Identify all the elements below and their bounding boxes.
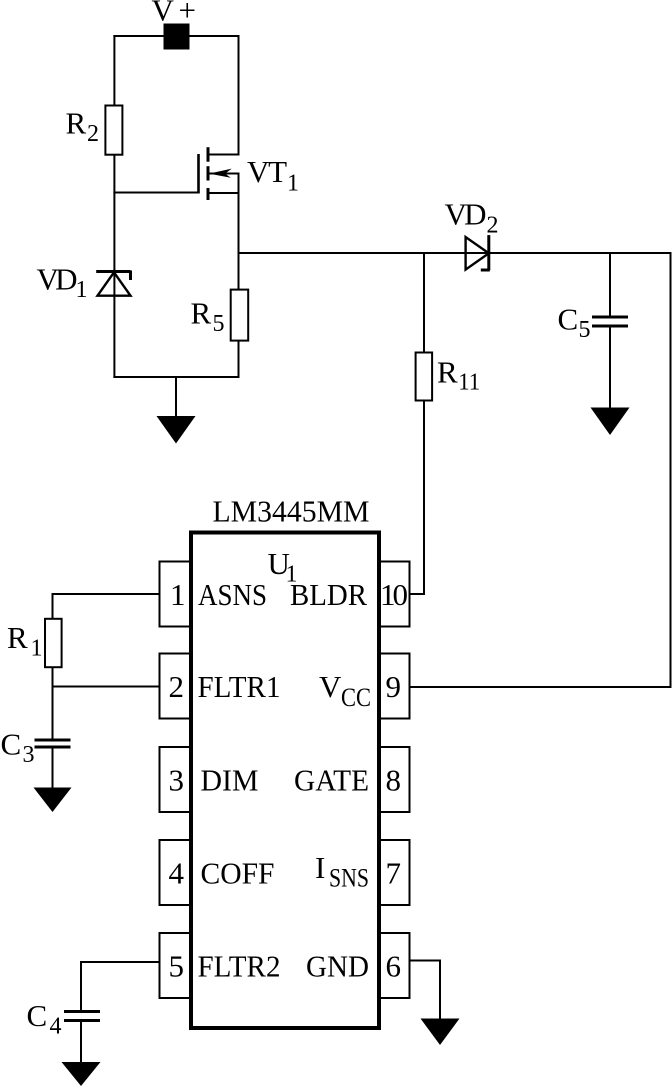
svg-text:SNS: SNS — [329, 864, 369, 893]
svg-text:GATE: GATE — [294, 763, 369, 798]
svg-text:8: 8 — [386, 763, 402, 798]
svg-text:6: 6 — [386, 949, 402, 984]
svg-text:5: 5 — [169, 949, 185, 984]
wire below R5 to bottom rail — [238, 341, 240, 378]
svg-text:1: 1 — [287, 171, 299, 197]
svg-text:2: 2 — [169, 669, 185, 704]
pin 9 box — [378, 654, 410, 719]
pin 8 box — [378, 747, 410, 812]
svg-text:C: C — [558, 302, 579, 337]
V+ terminal square — [164, 24, 190, 50]
capacitor C3 — [35, 740, 71, 747]
wire gate horizontal — [113, 192, 198, 194]
svg-text:1: 1 — [76, 277, 88, 303]
wire down to R1 — [52, 593, 54, 620]
svg-text:3: 3 — [23, 742, 35, 768]
wire source vertical from VT1 body/source down to main rail — [238, 174, 240, 291]
pin 5 box — [160, 933, 192, 998]
wire left vertical from R2 bottom through VD1 to bottom rail — [113, 155, 115, 379]
svg-text:LM3445MM: LM3445MM — [213, 494, 370, 529]
resistor R2 — [105, 106, 122, 155]
wire from pin 10 to R11 branch — [410, 593, 426, 595]
svg-text:V: V — [152, 0, 175, 28]
svg-text:11: 11 — [458, 370, 480, 396]
svg-text:DIM: DIM — [201, 763, 259, 798]
svg-text:COFF: COFF — [201, 856, 275, 891]
wire R11 branch down from main rail — [423, 253, 425, 353]
svg-text:GND: GND — [306, 949, 369, 984]
zener diode VD1 — [96, 271, 130, 296]
svg-text:4: 4 — [169, 856, 185, 891]
pin 6 box — [378, 933, 410, 998]
IC U1 LM3445MM body — [191, 533, 379, 1029]
svg-text:1: 1 — [170, 577, 186, 612]
capacitor C5 — [592, 317, 628, 326]
svg-text:1: 1 — [31, 636, 43, 662]
svg-text:C: C — [27, 998, 48, 1033]
pin 10 box — [378, 562, 410, 627]
wire main horizontal rail through VD2 — [239, 252, 671, 254]
wire right edge vertical (VCC feed) — [670, 252, 672, 688]
ground — [421, 1019, 460, 1046]
svg-text:R: R — [437, 355, 458, 390]
svg-text:5: 5 — [213, 311, 225, 337]
svg-text:3: 3 — [169, 763, 185, 798]
svg-text:9: 9 — [386, 669, 402, 704]
svg-text:C: C — [1, 727, 22, 762]
wire R1 bottom to C3 — [52, 667, 54, 741]
wire C3 to ground — [52, 747, 54, 789]
resistor R1 — [45, 619, 62, 667]
ground — [591, 408, 630, 436]
wire from C5 to ground — [609, 326, 611, 409]
svg-text:2: 2 — [87, 121, 99, 147]
wire drain vertical to top rail — [238, 35, 240, 155]
wire pin 1 to R1 — [52, 593, 160, 595]
svg-text:R: R — [7, 620, 28, 655]
wire pin 6 horizontal — [410, 960, 442, 962]
svg-text:VT: VT — [247, 154, 287, 189]
pin 4 box — [160, 840, 192, 905]
svg-text:10: 10 — [380, 577, 408, 612]
svg-text:V: V — [319, 669, 342, 704]
wire pin 2 horizontal — [52, 686, 160, 688]
svg-text:VD: VD — [37, 262, 78, 297]
svg-text:R: R — [66, 106, 87, 141]
svg-text:FLTR1: FLTR1 — [198, 669, 281, 704]
wire pin 6 ground stem — [439, 960, 441, 1020]
wire pin 9 horizontal to right edge — [410, 686, 672, 688]
svg-text:VD: VD — [445, 197, 487, 232]
wire from R11 down to pin 10 level — [423, 400, 425, 595]
wire down to C4 — [80, 961, 82, 1012]
diode VD2 — [466, 235, 490, 270]
wire bottom rail of input block — [113, 376, 239, 378]
wire C4 to ground — [80, 1021, 82, 1064]
pin 7 box — [378, 840, 410, 905]
svg-text:BLDR: BLDR — [290, 577, 367, 612]
svg-text:4: 4 — [50, 1014, 62, 1040]
svg-text:+: + — [179, 0, 196, 28]
wire C5 branch down from main rail — [609, 253, 611, 318]
ground — [157, 416, 196, 444]
wire left vertical from top to R2 — [113, 35, 115, 107]
svg-text:I: I — [315, 850, 325, 885]
capacitor C4 — [64, 1012, 100, 1021]
pin 2 box — [160, 654, 192, 719]
wire top horizontal from R2 top to VT1 drain — [113, 35, 239, 37]
svg-text:5: 5 — [579, 317, 591, 343]
wire ground stem of input block — [175, 377, 177, 418]
pin 1 box — [160, 562, 192, 627]
resistor R5 — [231, 290, 249, 341]
svg-text:ASNS: ASNS — [198, 577, 267, 612]
transistor VT1 — [199, 147, 240, 200]
resistor R11 — [416, 353, 433, 401]
svg-text:CC: CC — [341, 683, 371, 712]
svg-text:2: 2 — [487, 213, 499, 239]
ground — [62, 1062, 101, 1086]
pin 3 box — [160, 747, 192, 812]
svg-text:FLTR2: FLTR2 — [198, 949, 281, 984]
svg-text:R: R — [191, 296, 212, 331]
ground — [34, 788, 72, 813]
svg-text:7: 7 — [386, 856, 402, 891]
wire pin 5 to C4 — [80, 961, 160, 963]
